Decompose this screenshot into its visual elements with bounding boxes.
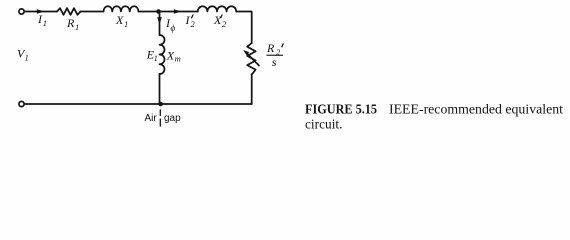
inductor X2' [198, 6, 236, 11]
label Iphi [165, 16, 176, 33]
wire shunt branch lower [159, 74, 161, 104]
inductor Xm [160, 35, 165, 74]
label I1 [37, 12, 47, 28]
svg-text:Air: Air [145, 113, 158, 124]
svg-text:s: s [272, 55, 277, 69]
wire R2'/s to bottom corner [251, 75, 253, 104]
svg-text:R: R [66, 16, 75, 30]
wire bottom [25, 103, 252, 105]
wire shunt branch upper [159, 12, 161, 36]
current arrow Iphi [157, 17, 162, 24]
air-gap dashed divider [159, 110, 161, 126]
svg-text:X: X [213, 13, 222, 27]
label X1 [115, 13, 128, 29]
svg-text:gap: gap [164, 113, 181, 124]
wire R1 to X1 [81, 11, 104, 13]
node junction top [156, 9, 161, 14]
current arrow I1 [37, 9, 45, 14]
svg-text:R: R [266, 41, 275, 55]
wire top-left segment [25, 11, 57, 13]
resistor R1 [57, 8, 81, 15]
svg-text:ϕ: ϕ [171, 23, 176, 33]
svg-text:X: X [166, 48, 175, 62]
terminal bottom-left [19, 101, 24, 106]
wire node to X2' [170, 11, 198, 13]
current arrow I2' [174, 9, 182, 14]
svg-text:1: 1 [25, 53, 29, 63]
label V1 [17, 47, 29, 63]
label E1 [146, 48, 158, 64]
label I2' [185, 13, 196, 29]
wire X1 to node [139, 11, 171, 13]
label R2'/s [266, 41, 283, 69]
inductor X1 [104, 6, 139, 11]
svg-text:1: 1 [75, 22, 79, 32]
svg-text:1: 1 [43, 18, 47, 28]
svg-text:FIGURE 5.15: FIGURE 5.15 [305, 103, 377, 118]
svg-text:X: X [115, 13, 124, 27]
caption [305, 103, 563, 133]
label Air gap [145, 113, 182, 124]
variable-resistor arrow [243, 50, 259, 66]
svg-text:1: 1 [124, 19, 128, 29]
label Xm [166, 48, 181, 63]
node junction bottom [158, 102, 163, 107]
wire X2' to corner [236, 12, 252, 44]
resistor R2'/s [247, 43, 255, 75]
svg-text:circuit.: circuit. [305, 118, 343, 133]
label X2' [213, 13, 227, 29]
terminal top-left [19, 9, 24, 14]
svg-text:1: 1 [154, 53, 158, 63]
svg-text:m: m [175, 54, 181, 64]
label R1 [66, 16, 79, 32]
svg-text:IEEE-recommended equivalent: IEEE-recommended equivalent [389, 103, 563, 118]
